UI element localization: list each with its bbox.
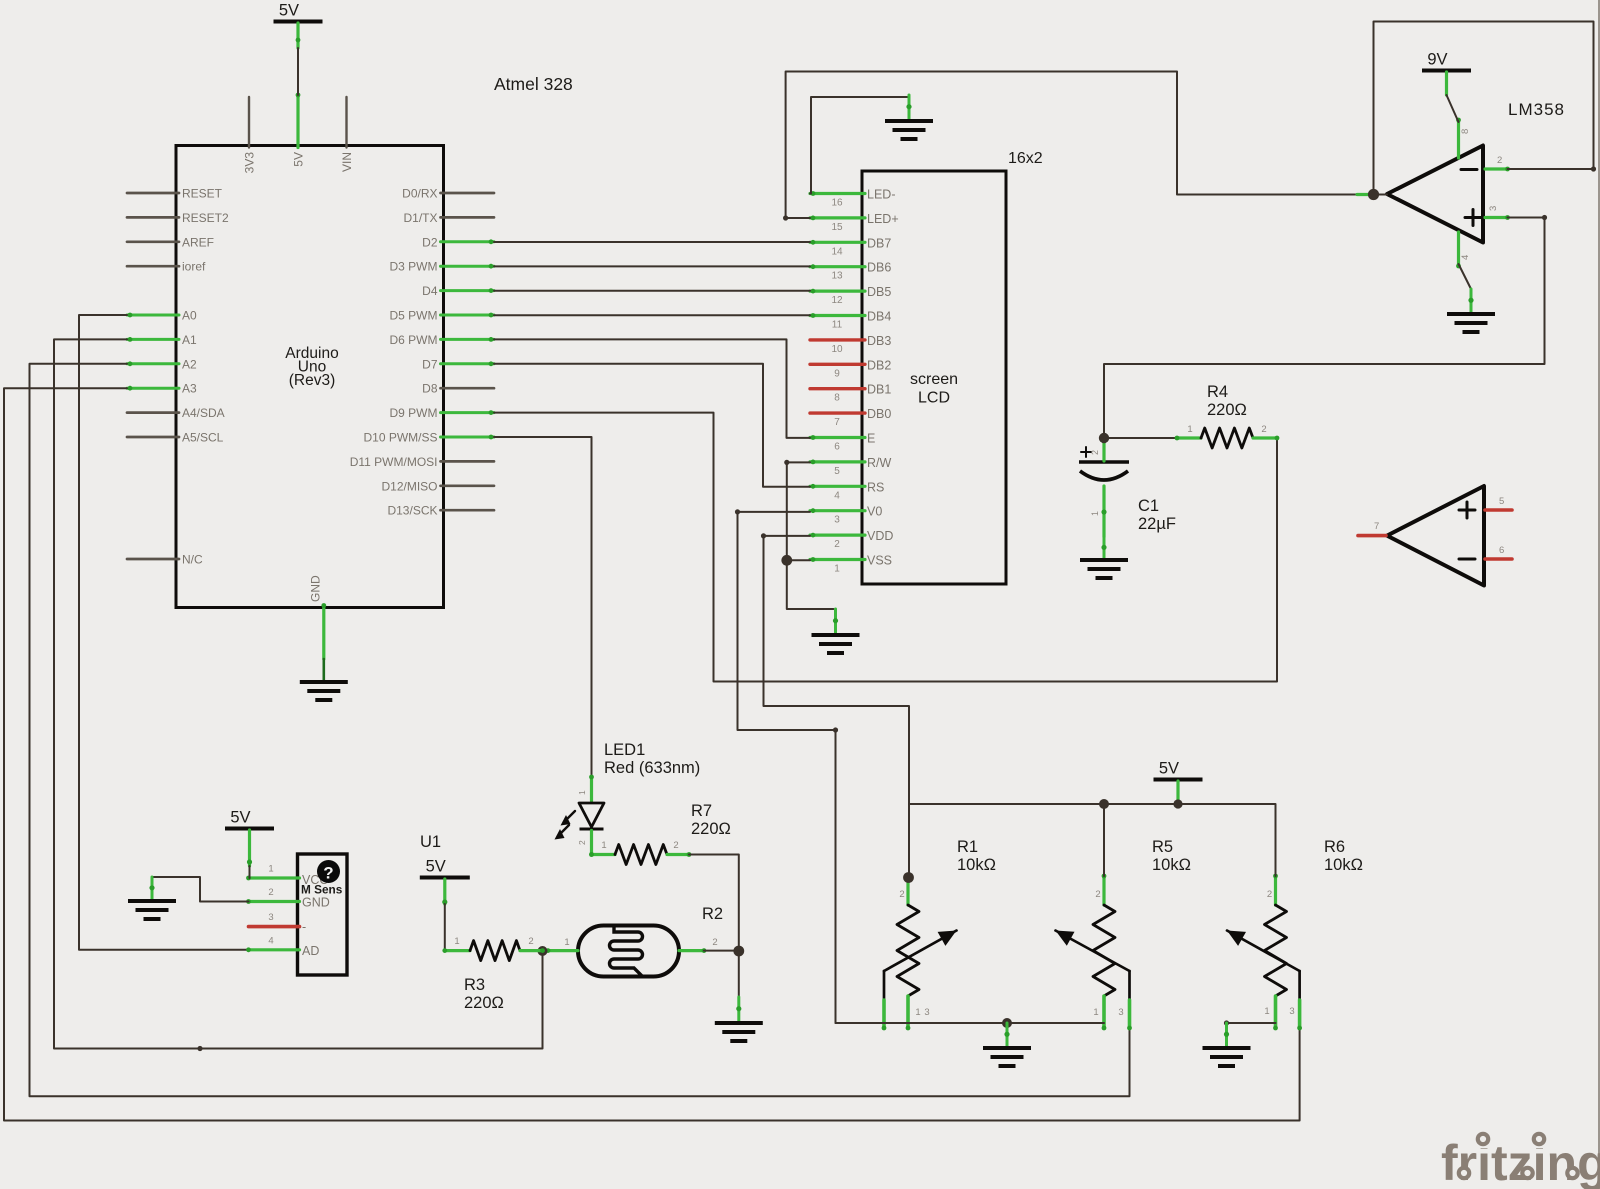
wire output feedback to pin 2	[1374, 22, 1597, 195]
resistor R7	[589, 840, 691, 865]
label R5 10k	[1152, 838, 1191, 874]
svg-text:M Sens: M Sens	[301, 883, 343, 897]
svg-text:GND: GND	[309, 575, 323, 602]
Arduino pin D6 PWM	[390, 333, 495, 347]
label R7 220	[691, 802, 731, 838]
svg-text:VSS: VSS	[867, 554, 892, 568]
label R4 220	[1207, 383, 1247, 419]
svg-text:1: 1	[268, 864, 273, 875]
svg-text:6: 6	[1499, 545, 1504, 556]
Arduino pin D7	[422, 357, 494, 371]
wire LED- to ground	[810, 97, 909, 194]
svg-text:D3 PWM: D3 PWM	[390, 260, 438, 274]
LCD pin 3 V0	[810, 505, 882, 526]
svg-text:3: 3	[1488, 206, 1499, 211]
wire A3 to R6 wiper	[4, 388, 1300, 1120]
wire A2 to R5 wiper	[30, 364, 1130, 1097]
Arduino pin D3 PWM	[390, 260, 495, 274]
Arduino pin D5 PWM	[390, 309, 495, 323]
photoresistor R2	[546, 926, 718, 977]
LCD screen 16x2	[862, 171, 1006, 584]
node VSS junction	[781, 555, 792, 566]
ground (pots R1 R5)	[983, 1023, 1031, 1066]
wire end mark at op-amp output	[1357, 193, 1371, 196]
label Atmel 328	[494, 74, 573, 94]
node R1 pin2 junction	[903, 872, 914, 883]
Arduino pin D2	[422, 235, 494, 249]
node C1/R4 junction	[1099, 433, 1109, 443]
svg-text:LED1: LED1	[604, 741, 645, 759]
svg-text:220Ω: 220Ω	[1207, 401, 1247, 419]
wire A0 to M-Sens AD	[79, 315, 249, 950]
Arduino pin A1	[127, 333, 197, 347]
wire R/W VSS to ground	[784, 460, 833, 609]
svg-text:2: 2	[1497, 155, 1502, 166]
svg-text:10kΩ: 10kΩ	[1152, 856, 1191, 874]
ground (LCD backlight LED-)	[885, 95, 933, 139]
wire U1 5V to R3 pin1	[442, 879, 447, 951]
svg-text:220Ω: 220Ω	[464, 994, 504, 1012]
wire VDD to 5V bus	[761, 533, 909, 876]
svg-text:R1: R1	[957, 838, 978, 856]
svg-text:D4: D4	[422, 284, 438, 298]
wire D3 to LCD DB6	[494, 265, 810, 267]
svg-text:RESET2: RESET2	[182, 211, 229, 225]
Arduino pin D11 PWM/MOSI	[350, 455, 494, 469]
potentiometer R5	[1056, 874, 1132, 1031]
svg-text:GND: GND	[302, 896, 330, 910]
wire D7 to LCD RS	[494, 364, 810, 487]
svg-text:220Ω: 220Ω	[691, 820, 731, 838]
svg-text:E: E	[867, 432, 875, 446]
svg-text:2: 2	[1267, 889, 1272, 900]
Arduino pin D10 PWM/SS	[363, 431, 494, 445]
LCD pin 8 DB1	[810, 383, 891, 404]
svg-text:4: 4	[1460, 255, 1471, 260]
label R3 220	[464, 976, 504, 1012]
svg-text:5V: 5V	[1159, 760, 1179, 778]
LCD pin 11 DB4	[810, 310, 891, 331]
LCD pin 4 RS	[810, 480, 884, 501]
svg-text:13: 13	[831, 271, 843, 282]
Arduino pin A2	[127, 357, 197, 371]
svg-text:RS: RS	[867, 480, 884, 494]
svg-text:7: 7	[1374, 521, 1379, 532]
svg-text:R5: R5	[1152, 838, 1173, 856]
Arduino pin A3	[127, 382, 197, 396]
svg-text:22µF: 22µF	[1138, 515, 1176, 533]
svg-text:9V: 9V	[1427, 51, 1447, 69]
svg-text:5: 5	[834, 466, 840, 477]
svg-text:11: 11	[832, 320, 843, 331]
wire D2 to LCD DB7	[494, 241, 810, 243]
ground (R2)	[715, 997, 763, 1041]
power 5V supply (U1)	[420, 858, 470, 878]
svg-text:A3: A3	[182, 382, 197, 396]
svg-text:16x2: 16x2	[1008, 150, 1043, 167]
svg-text:2: 2	[673, 840, 678, 851]
LED LED1	[555, 775, 605, 857]
wire V0 to R1 wiper	[735, 509, 882, 1023]
Arduino pin D8	[422, 382, 494, 396]
wire 5V bus	[909, 804, 1276, 876]
svg-text:R7: R7	[691, 802, 712, 820]
Arduino Uno (Rev3) Atmel 328 main board	[176, 146, 444, 608]
svg-text:V0: V0	[867, 505, 882, 519]
svg-text:1: 1	[1093, 1007, 1098, 1018]
node bus/R5 junction	[1099, 799, 1109, 809]
svg-text:4: 4	[268, 936, 273, 947]
label LED1 Red 633nm	[604, 741, 700, 777]
svg-text:A2: A2	[182, 357, 197, 371]
label 16x2	[1008, 150, 1043, 167]
power 5V supply (Arduino)	[274, 2, 323, 22]
svg-text:VDD: VDD	[867, 529, 893, 543]
ground (R6)	[1203, 1023, 1251, 1066]
wire R7 to R2 node	[689, 855, 739, 950]
Arduino pin ioref	[127, 260, 206, 274]
power 9V supply	[1422, 51, 1471, 71]
wire C1 node to R4 pin1	[1104, 437, 1177, 439]
svg-text:D13/SCK: D13/SCK	[387, 504, 437, 518]
svg-text:D5 PWM: D5 PWM	[390, 309, 438, 323]
svg-text:A0: A0	[182, 309, 197, 323]
svg-text:DB6: DB6	[867, 261, 891, 275]
node R2/R7 junction	[733, 946, 744, 957]
svg-text:3: 3	[1118, 1007, 1123, 1018]
wire 9V to op-amp pin 8	[1447, 72, 1459, 122]
Arduino pin A5/SCL	[127, 431, 224, 445]
ground (M Sens)	[128, 877, 176, 919]
svg-text:?: ?	[323, 864, 333, 883]
svg-text:R6: R6	[1324, 838, 1345, 856]
node rail/ground junction	[1002, 1018, 1012, 1028]
svg-text:AD: AD	[302, 944, 319, 958]
wire bottom rail R1 R5	[836, 1022, 1105, 1024]
ground (C1)	[1080, 537, 1128, 578]
svg-text:R/W: R/W	[867, 456, 892, 470]
svg-text:LED+: LED+	[867, 212, 899, 226]
Arduino pin D9 PWM	[390, 406, 495, 420]
svg-text:D6 PWM: D6 PWM	[390, 333, 438, 347]
svg-text:D10 PWM/SS: D10 PWM/SS	[363, 431, 437, 445]
svg-text:fritzing: fritzing	[1441, 1135, 1600, 1189]
Arduino pin N/C	[127, 553, 203, 567]
svg-text:1: 1	[834, 564, 840, 575]
svg-text:Atmel 328: Atmel 328	[494, 74, 573, 94]
LCD pin 1 VSS	[810, 554, 892, 575]
svg-text:2: 2	[899, 889, 904, 900]
Arduino pin RESET2	[127, 211, 229, 225]
wire pin 3 to C1/R4 node	[1104, 215, 1547, 436]
svg-text:14: 14	[831, 246, 843, 257]
svg-text:R2: R2	[702, 905, 723, 923]
svg-text:5: 5	[1499, 496, 1504, 507]
label R2	[702, 905, 723, 923]
Arduino pin A4/SDA	[127, 406, 225, 420]
LCD pin 9 DB2	[810, 358, 891, 379]
wire LED+ to op-amp output	[783, 72, 1370, 221]
svg-text:LM358: LM358	[1508, 100, 1565, 119]
Arduino pin VIN	[340, 97, 354, 172]
svg-text:DB0: DB0	[867, 407, 891, 421]
right image border	[1598, 0, 1600, 1189]
wire A1 to R3/R2 node	[54, 339, 543, 1051]
wire D6 to LCD E	[494, 339, 810, 438]
wire M-Sens GND to ground	[152, 877, 249, 902]
wire 5V to bus	[1176, 781, 1179, 803]
svg-text:3: 3	[834, 515, 840, 526]
svg-text:R3: R3	[464, 976, 485, 994]
LCD pin 10 DB3	[810, 334, 891, 355]
svg-text:VIN: VIN	[340, 152, 354, 172]
svg-text:9: 9	[834, 368, 840, 379]
svg-text:1: 1	[577, 790, 587, 795]
svg-text:2: 2	[1090, 450, 1100, 455]
svg-text:A5/SCL: A5/SCL	[182, 431, 224, 445]
op-amp U2B (unconnected)	[1358, 486, 1512, 586]
svg-text:1: 1	[915, 1007, 920, 1018]
LCD pin 2 VDD	[810, 529, 893, 550]
label R1 10k	[957, 838, 996, 874]
svg-text:D9 PWM: D9 PWM	[390, 406, 438, 420]
LCD pin 6 E	[810, 432, 875, 453]
svg-text:5V: 5V	[426, 858, 446, 876]
svg-text:4: 4	[834, 490, 840, 501]
Arduino pin D13/SCK	[387, 504, 494, 518]
svg-text:D2: D2	[422, 235, 438, 249]
LCD pin 16 LED-	[810, 188, 895, 209]
svg-text:3: 3	[1289, 1006, 1294, 1017]
Arduino pin GND	[309, 575, 327, 659]
label U1	[420, 833, 441, 851]
svg-text:C1: C1	[1138, 497, 1159, 515]
ground (op-amp pin 4)	[1447, 289, 1495, 332]
Arduino pin 5V	[292, 93, 306, 167]
svg-text:DB4: DB4	[867, 310, 891, 324]
svg-text:R4: R4	[1207, 383, 1228, 401]
potentiometer R1	[882, 874, 957, 1031]
svg-text:2: 2	[268, 887, 273, 898]
potentiometer R6	[1227, 874, 1302, 1031]
Arduino pin A0	[127, 309, 197, 323]
LCD pin 7 DB0	[810, 407, 891, 428]
wire D10 to LED1 anode	[494, 437, 592, 777]
Arduino pin D12/MISO	[381, 479, 494, 493]
svg-text:U1: U1	[420, 833, 441, 851]
svg-text:5V: 5V	[279, 2, 299, 20]
svg-text:2: 2	[712, 937, 717, 948]
svg-text:D12/MISO: D12/MISO	[381, 479, 437, 493]
svg-text:Red (633nm): Red (633nm)	[604, 759, 700, 777]
capacitor C1	[1079, 436, 1129, 537]
svg-text:RESET: RESET	[182, 187, 223, 201]
resistor R4	[1175, 424, 1280, 448]
watermark fritzing	[1441, 1124, 1600, 1189]
svg-text:8: 8	[1460, 129, 1471, 134]
svg-text:N/C: N/C	[182, 553, 203, 567]
svg-text:2: 2	[1261, 424, 1266, 435]
svg-text:AREF: AREF	[182, 235, 214, 249]
LCD pin 15 LED+	[810, 212, 899, 233]
svg-text:A1: A1	[182, 333, 197, 347]
svg-text:1: 1	[1264, 1006, 1269, 1017]
svg-text:15: 15	[831, 222, 843, 233]
wire R2 node to ground	[738, 951, 740, 997]
svg-text:-: -	[302, 920, 306, 934]
svg-text:D7: D7	[422, 357, 438, 371]
wire op-amp pin 4 to ground	[1459, 264, 1472, 289]
svg-text:LCD: LCD	[918, 390, 950, 407]
module M Sens (U?)	[246, 854, 347, 975]
svg-text:6: 6	[834, 442, 840, 453]
svg-text:DB5: DB5	[867, 285, 891, 299]
node R3/R2 junction	[538, 946, 548, 956]
svg-text:7: 7	[834, 417, 840, 428]
svg-text:5V: 5V	[292, 152, 306, 167]
svg-text:ioref: ioref	[182, 260, 206, 274]
wire D4 to LCD DB5	[494, 290, 810, 292]
wire bus to R5 pin2	[1103, 804, 1105, 876]
wire D9 to R4 pin2	[494, 413, 1277, 682]
label R6 10k	[1324, 838, 1363, 874]
Arduino pin D4	[422, 284, 494, 298]
ground (Arduino GND)	[300, 659, 348, 700]
svg-text:1: 1	[1090, 511, 1100, 516]
svg-text:3: 3	[268, 912, 273, 923]
svg-text:1: 1	[601, 840, 606, 851]
wire 5V to M-Sens VCC	[247, 830, 252, 878]
power 5V supply (pots)	[1154, 760, 1203, 780]
wire R2 to node	[704, 950, 736, 952]
svg-text:D0/RX: D0/RX	[402, 187, 437, 201]
wire op-amp output to LED+ node	[1374, 194, 1388, 196]
svg-text:8: 8	[834, 393, 840, 404]
Arduino pin AREF	[127, 235, 214, 249]
node op-amp output	[1368, 189, 1379, 200]
Arduino pin 3V3	[243, 97, 257, 173]
svg-text:2: 2	[1095, 889, 1100, 900]
ground (LCD VSS R/W)	[812, 609, 860, 653]
svg-text:DB7: DB7	[867, 236, 891, 250]
svg-text:1: 1	[564, 937, 569, 948]
svg-text:3V3: 3V3	[243, 152, 257, 174]
Arduino pin D1/TX	[403, 211, 494, 225]
svg-text:DB2: DB2	[867, 358, 891, 372]
LCD pin 13 DB6	[810, 261, 891, 282]
svg-text:(Rev3): (Rev3)	[289, 372, 336, 389]
label C1 22uF	[1138, 497, 1176, 533]
resistor R3	[442, 936, 544, 961]
svg-text:2: 2	[577, 840, 587, 845]
svg-text:A4/SDA: A4/SDA	[182, 406, 225, 420]
wire R6 pin1 to ground	[1224, 1020, 1276, 1025]
svg-text:1: 1	[1187, 424, 1192, 435]
power 5V supply (M Sens)	[225, 809, 274, 829]
svg-text:screen: screen	[910, 371, 958, 388]
svg-text:5V: 5V	[230, 809, 250, 827]
svg-text:12: 12	[831, 295, 843, 306]
LCD pin 5 R/W	[810, 456, 892, 477]
svg-text:D11 PWM/MOSI: D11 PWM/MOSI	[350, 455, 438, 469]
Arduino pin D0/RX	[402, 187, 494, 201]
wire VSS spur	[787, 559, 810, 561]
label LM358	[1508, 100, 1565, 119]
svg-text:10kΩ: 10kΩ	[957, 856, 996, 874]
Arduino pin RESET	[127, 187, 223, 201]
svg-text:LED-: LED-	[867, 188, 895, 202]
wire D5 to LCD DB4	[494, 314, 810, 316]
op-amp U2A LM358	[1387, 118, 1510, 269]
svg-text:D1/TX: D1/TX	[403, 211, 437, 225]
svg-text:D8: D8	[422, 382, 438, 396]
svg-text:10kΩ: 10kΩ	[1324, 856, 1363, 874]
wire 5V to Arduino 5V pin	[296, 23, 301, 95]
svg-text:2: 2	[834, 539, 840, 550]
svg-text:3: 3	[924, 1007, 929, 1018]
svg-text:2: 2	[528, 936, 533, 947]
svg-text:16: 16	[831, 198, 843, 209]
LCD pin 14 DB7	[810, 236, 891, 257]
svg-text:1: 1	[454, 936, 459, 947]
LCD pin 12 DB5	[810, 285, 891, 306]
node bus/5V junction	[1173, 799, 1182, 808]
svg-text:10: 10	[831, 344, 843, 355]
svg-text:DB3: DB3	[867, 334, 891, 348]
svg-text:DB1: DB1	[867, 383, 891, 397]
